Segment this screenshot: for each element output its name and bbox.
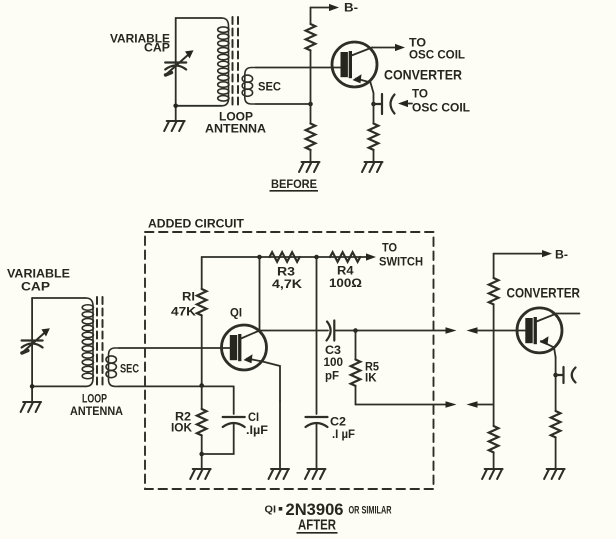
resistor top bias (B-) bbox=[306, 24, 316, 50]
wire converter emitter vertical bbox=[555, 357, 557, 468]
ground bias (after) bbox=[482, 469, 503, 479]
resistor bias top (after) bbox=[489, 278, 499, 304]
transformer core (after) bbox=[96, 297, 98, 385]
node R5 top junction bbox=[353, 328, 358, 333]
svg-text:CAP: CAP bbox=[21, 280, 50, 294]
svg-text:.IµF: .IµF bbox=[246, 423, 268, 437]
ground emitter (after) bbox=[544, 469, 565, 479]
svg-text:CI: CI bbox=[248, 410, 259, 424]
wire collector vertical bbox=[259, 257, 261, 331]
svg-text:OSC COIL: OSC COIL bbox=[412, 101, 470, 115]
resistor bias lower (after) bbox=[489, 426, 499, 452]
wire lower to converter bias line bbox=[477, 404, 494, 406]
node rail/collector junction bbox=[257, 255, 262, 260]
arrow input lower (converter side) bbox=[467, 401, 478, 408]
svg-text:IOK: IOK bbox=[171, 421, 192, 435]
node emitter/cap junction (after) bbox=[553, 373, 558, 378]
svg-text:B-: B- bbox=[344, 1, 358, 15]
wire top loop horizontal (after) bbox=[32, 297, 86, 299]
svg-text:IK: IK bbox=[365, 371, 377, 385]
svg-text:47K: 47K bbox=[171, 305, 196, 319]
wire R2 branch bbox=[201, 386, 203, 410]
svg-text:CAP: CAP bbox=[144, 41, 170, 55]
node R2/C1 bottom junction bbox=[199, 452, 204, 457]
wire variable-cap branch vertical bbox=[175, 18, 177, 120]
svg-text:VARIABLE: VARIABLE bbox=[7, 267, 70, 281]
transistor Q1 bbox=[222, 325, 281, 401]
wire top loop horizontal bbox=[176, 17, 222, 19]
dashed box ADDED CIRCUIT bbox=[145, 232, 434, 489]
node junction bias/secondary-bottom bbox=[308, 102, 313, 107]
svg-text:CONVERTER: CONVERTER bbox=[507, 285, 581, 301]
capacitor C1 .1uF bbox=[223, 417, 245, 427]
capacitor emitter (after) bbox=[556, 367, 576, 383]
svg-text:QI: QI bbox=[265, 505, 277, 516]
svg-text:100: 100 bbox=[324, 355, 344, 369]
wire bias to ground bbox=[310, 150, 312, 161]
node rail/C2 junction bbox=[314, 255, 319, 260]
wire R5 leads bbox=[355, 331, 357, 405]
wire lower rail to arrow bbox=[356, 404, 447, 406]
ground R2 bbox=[190, 469, 211, 479]
wire bottom loop horizontal (after) bbox=[32, 385, 86, 387]
resistor R4 100ohm bbox=[330, 252, 360, 262]
wire secondary bottom to bias line bbox=[256, 103, 311, 105]
capacitor variable cap (top) bbox=[165, 50, 193, 75]
svg-text:BEFORE: BEFORE bbox=[271, 177, 317, 191]
secondary coil SEC (top) bbox=[242, 68, 256, 105]
wire B- top (after) with arrow bbox=[494, 253, 542, 255]
wire collector to osc coil arrow bbox=[372, 47, 395, 49]
svg-text:OR SIMILAR: OR SIMILAR bbox=[349, 505, 392, 517]
ground below variable cap (after) bbox=[21, 402, 41, 412]
resistor R2 10K bbox=[197, 409, 207, 435]
svg-text:SEC: SEC bbox=[258, 80, 281, 94]
wire secondary top to Q1 base bbox=[119, 347, 222, 349]
transistor converter (AFTER) bbox=[517, 308, 562, 357]
arrow output top (added circuit) bbox=[446, 327, 457, 334]
svg-text:100Ω: 100Ω bbox=[329, 276, 362, 290]
wire secondary bottom rail bbox=[119, 385, 234, 387]
resistor lower bias bbox=[306, 124, 316, 150]
wire C1 branch bbox=[202, 386, 234, 454]
resistor R3 4.7K bbox=[270, 252, 300, 262]
arrow TO SWITCH bbox=[366, 253, 376, 260]
svg-text:CONVERTER: CONVERTER bbox=[384, 67, 462, 83]
resistor R5 1K bbox=[351, 360, 361, 386]
svg-text:.I µF: .I µF bbox=[332, 427, 355, 441]
svg-text:RI: RI bbox=[182, 290, 195, 304]
svg-text:ANTENNA: ANTENNA bbox=[205, 122, 266, 136]
ground below variable cap bbox=[164, 121, 185, 131]
secondary coil SEC (after) bbox=[106, 348, 119, 386]
node R1 bottom junction bbox=[199, 383, 204, 388]
wire secondary top to transistor base bbox=[256, 67, 332, 69]
svg-text:AFTER: AFTER bbox=[298, 517, 336, 534]
wire B- bias vertical line bbox=[310, 8, 312, 124]
svg-text:TO: TO bbox=[382, 241, 397, 255]
wire bottom loop horizontal bbox=[176, 105, 222, 107]
ground bias line bbox=[299, 162, 320, 172]
wire C2 branch vertical bbox=[316, 257, 318, 414]
arrow input top (converter side) bbox=[467, 327, 478, 334]
arrow to osc coil (lower) bbox=[398, 100, 408, 107]
transformer core (top) bbox=[232, 17, 234, 105]
resistor R1 47K bbox=[197, 289, 207, 315]
resistor emitter bbox=[369, 124, 379, 150]
svg-text:pF: pF bbox=[325, 369, 339, 383]
svg-text:OSC COIL: OSC COIL bbox=[409, 48, 465, 62]
arrow output lower (added circuit) bbox=[446, 401, 457, 408]
wire Q1 collector output bbox=[260, 330, 329, 332]
wire R1 vertical line bbox=[201, 257, 203, 386]
node junction var-cap ground (after) bbox=[30, 384, 35, 389]
svg-text:4,7K: 4,7K bbox=[272, 277, 302, 291]
svg-text:QI: QI bbox=[230, 306, 242, 320]
wire converter bias vertical bbox=[493, 254, 495, 468]
svg-text:SEC: SEC bbox=[120, 362, 139, 376]
wire B- top with arrow bbox=[311, 7, 330, 9]
capacitor C2 .1uF bbox=[306, 417, 328, 427]
wire converter collector stub bbox=[557, 313, 580, 315]
capacitor C3 100pF bbox=[327, 321, 335, 341]
resistor emitter (after) bbox=[551, 411, 561, 437]
wire to converter base bbox=[477, 330, 517, 332]
svg-text:TO: TO bbox=[412, 87, 428, 101]
loop antenna primary coil (after) bbox=[82, 298, 93, 386]
loop antenna primary coil (top) bbox=[218, 18, 229, 106]
svg-text:ANTENNA: ANTENNA bbox=[70, 404, 123, 418]
wire C3 to output arrow bbox=[334, 330, 446, 332]
wire variable-cap branch vertical (after) bbox=[31, 298, 33, 401]
svg-text:B-: B- bbox=[555, 248, 568, 262]
capacitor emitter coupling bbox=[374, 94, 395, 114]
svg-text:ADDED CIRCUIT: ADDED CIRCUIT bbox=[148, 217, 245, 231]
transistor converter (BEFORE) bbox=[332, 42, 377, 104]
svg-text:SWITCH: SWITCH bbox=[379, 255, 423, 269]
ground emitter bbox=[362, 162, 383, 172]
node junction var-cap/ground bbox=[173, 104, 178, 109]
ground C2 bbox=[305, 469, 326, 479]
wire top rail bbox=[202, 256, 366, 258]
capacitor variable cap (after) bbox=[22, 328, 50, 353]
node emitter junction bbox=[371, 102, 376, 107]
ground Q1 emitter bbox=[269, 469, 290, 479]
